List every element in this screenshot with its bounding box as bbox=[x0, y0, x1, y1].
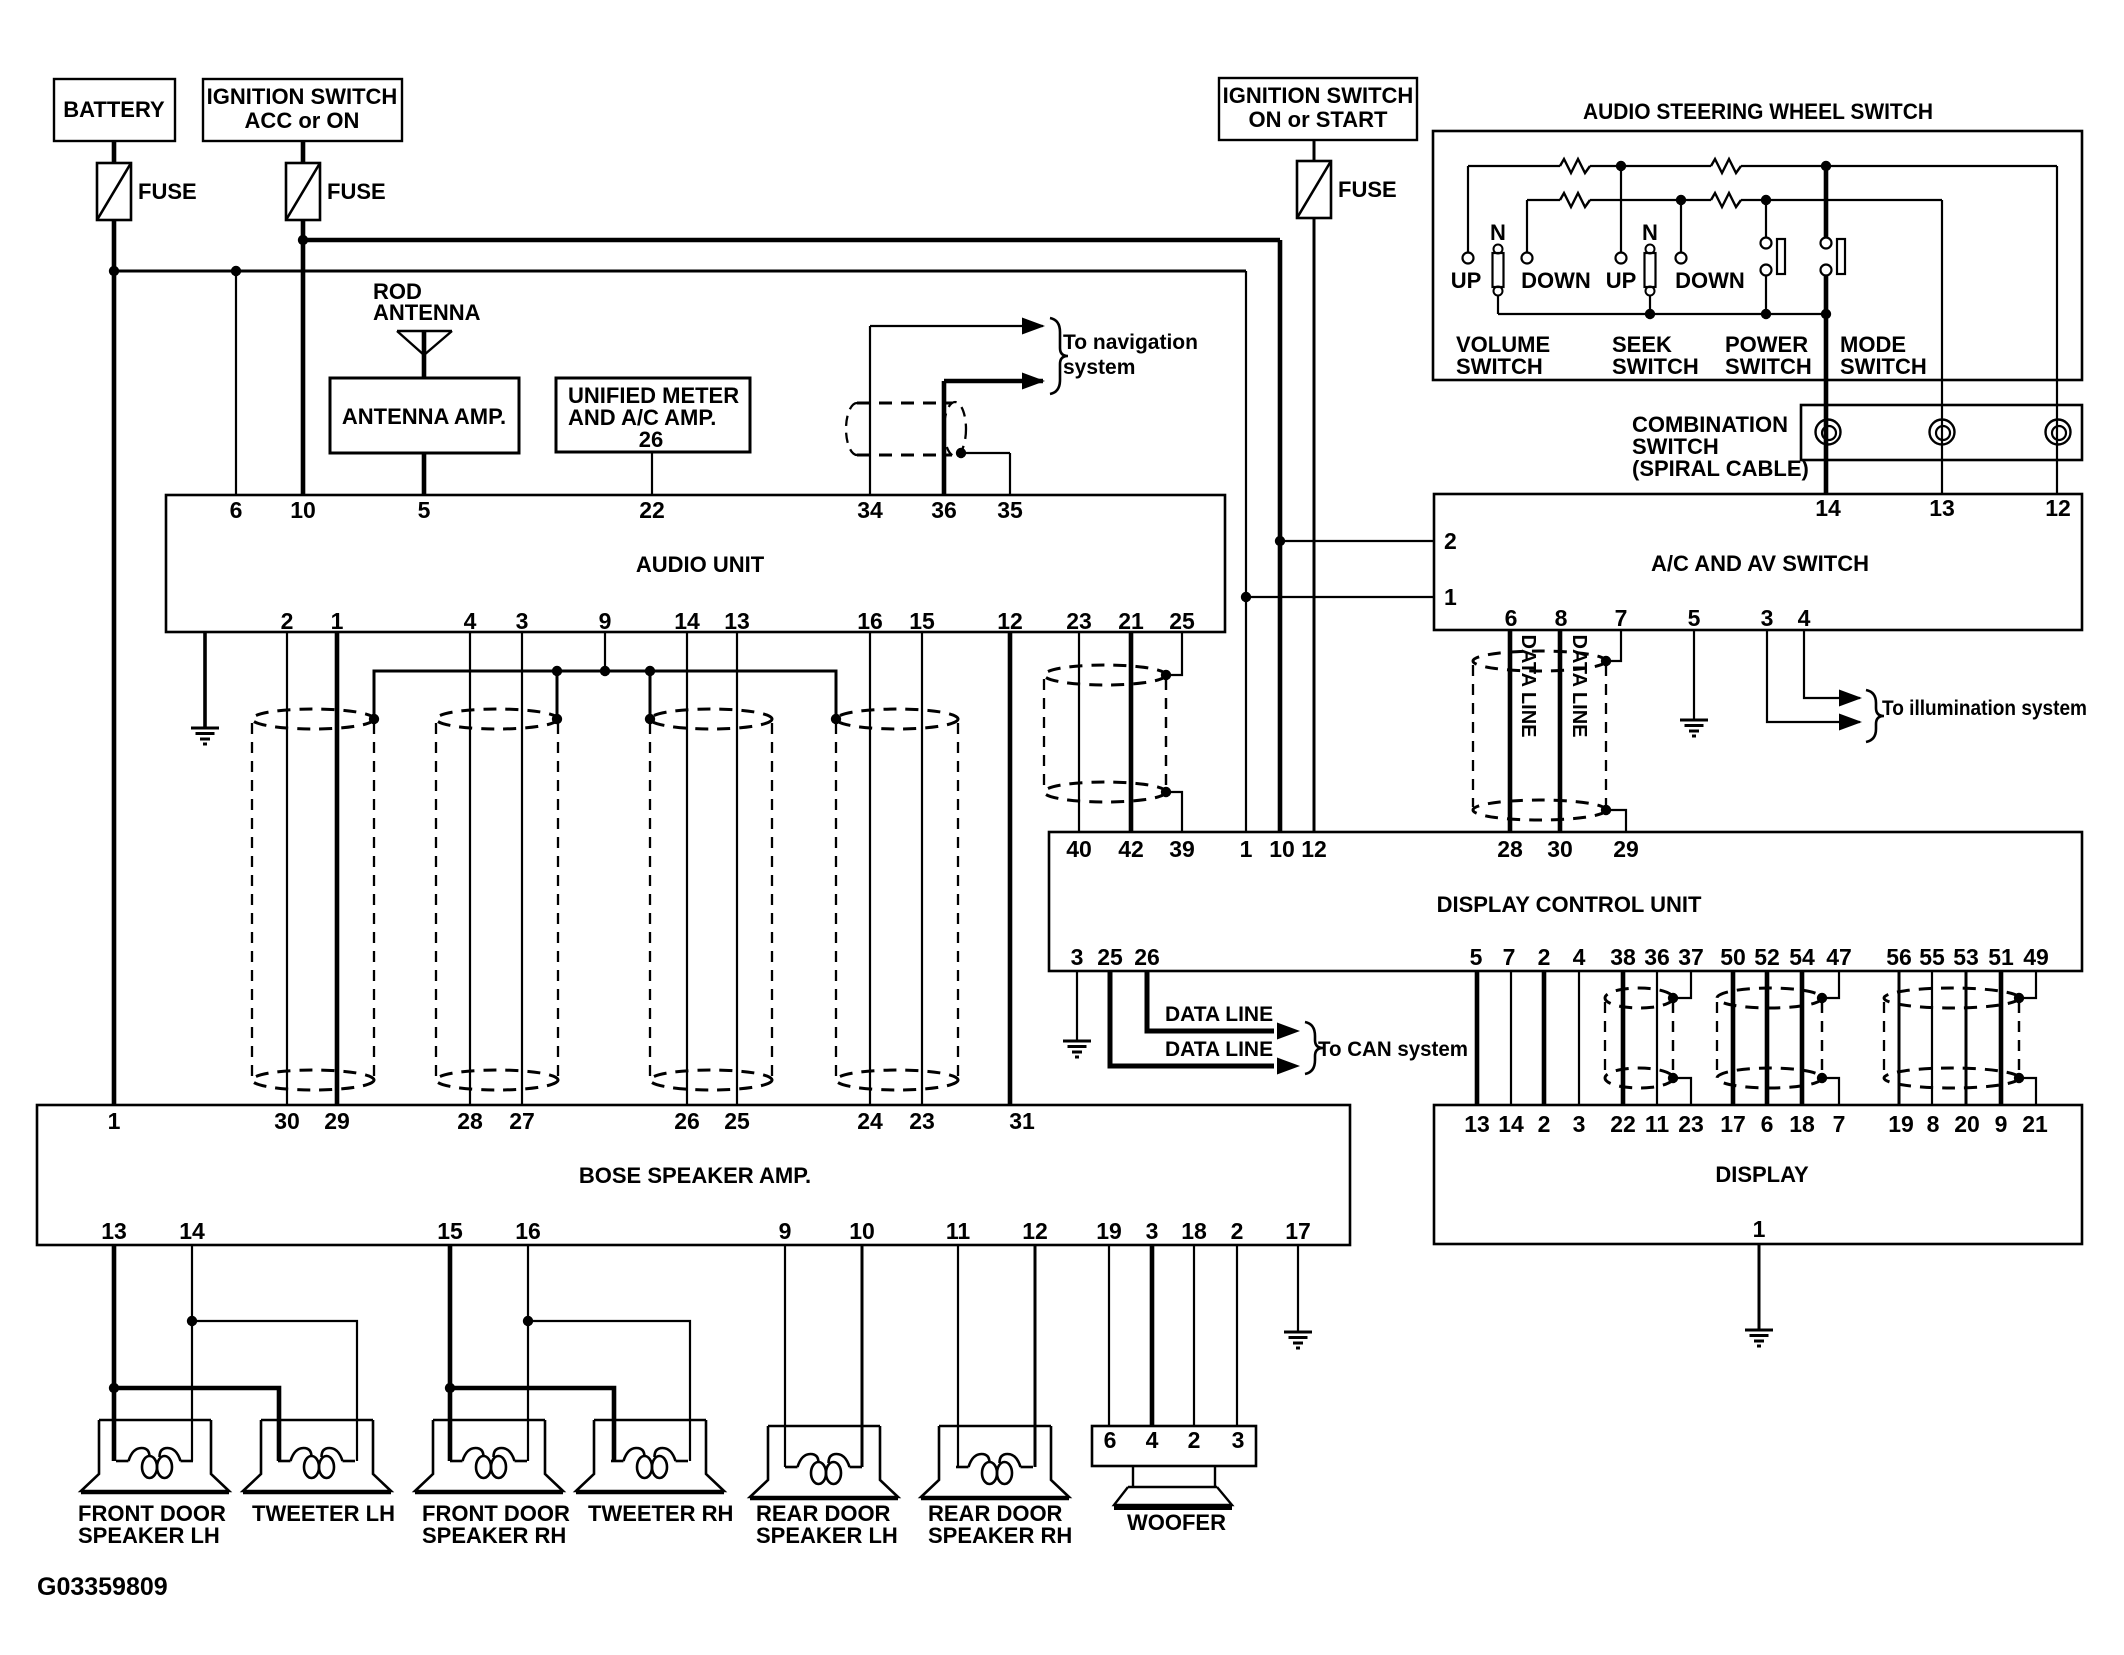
svg-text:23: 23 bbox=[1066, 608, 1092, 634]
svg-text:SPEAKER RH: SPEAKER RH bbox=[422, 1523, 566, 1548]
node shield bus bbox=[645, 666, 655, 676]
shielded cable (speaker pair 4/3) bbox=[436, 709, 558, 1090]
svg-text:DOWN: DOWN bbox=[1521, 268, 1591, 293]
wire ACAV 3 to illumination bbox=[1767, 630, 1860, 722]
svg-text:21: 21 bbox=[1118, 608, 1144, 634]
svg-text:8: 8 bbox=[1555, 605, 1568, 631]
shielded cable (speaker pair 14/13) bbox=[650, 709, 772, 1090]
svg-text:TWEETER RH: TWEETER RH bbox=[588, 1501, 733, 1526]
svg-text:system: system bbox=[1063, 356, 1135, 379]
wire antenna amp to AUDIO pin 5 bbox=[422, 453, 427, 495]
brace to CAN bbox=[1305, 1022, 1323, 1074]
svg-text:6: 6 bbox=[1761, 1111, 1774, 1137]
svg-text:35: 35 bbox=[997, 497, 1023, 523]
svg-text:39: 39 bbox=[1169, 836, 1195, 862]
wire to TWEETER LH + bbox=[114, 1388, 279, 1461]
svg-text:1: 1 bbox=[331, 608, 344, 634]
svg-text:8: 8 bbox=[1927, 1111, 1940, 1137]
AUDIO STEERING WHEEL SWITCH box bbox=[1433, 131, 2082, 380]
ignition switch ACC box bbox=[203, 79, 402, 141]
svg-text:5: 5 bbox=[1470, 944, 1483, 970]
A/C AND AV SWITCH box bbox=[1434, 494, 2082, 630]
svg-text:UP: UP bbox=[1451, 268, 1482, 293]
speaker TWEETER RH bbox=[576, 1420, 724, 1493]
svg-text:27: 27 bbox=[509, 1108, 535, 1134]
svg-text:13: 13 bbox=[724, 608, 750, 634]
wire DCU 36 to DISPLAY 11 bbox=[1656, 971, 1658, 1105]
AUDIO UNIT box bbox=[166, 495, 1225, 632]
svg-text:31: 31 bbox=[1009, 1108, 1035, 1134]
wire AUDIO 9 shield drain bbox=[604, 632, 606, 671]
svg-text:18: 18 bbox=[1181, 1218, 1207, 1244]
node branch tweeter LH - bbox=[187, 1316, 197, 1326]
svg-text:47: 47 bbox=[1826, 944, 1852, 970]
svg-text:DATA LINE: DATA LINE bbox=[1568, 635, 1590, 738]
svg-text:3: 3 bbox=[516, 608, 529, 634]
shielded cable (speaker pair 2/1) bbox=[252, 709, 374, 1090]
svg-text:28: 28 bbox=[457, 1108, 483, 1134]
spiral cable contact bbox=[1816, 420, 1841, 445]
node top rail / mode bbox=[1821, 161, 1831, 171]
node shield top bbox=[1668, 993, 1678, 1003]
power switch bbox=[1765, 200, 1767, 237]
svg-text:55: 55 bbox=[1919, 944, 1945, 970]
svg-text:2: 2 bbox=[1444, 528, 1457, 554]
resistor R1 bbox=[1560, 159, 1590, 173]
wire to AUDIO UNIT pin 6 bbox=[235, 271, 237, 495]
volume switch DOWN contact bbox=[1526, 200, 1528, 252]
svg-text:1: 1 bbox=[108, 1108, 121, 1134]
svg-text:4: 4 bbox=[1146, 1427, 1159, 1453]
svg-text:10: 10 bbox=[849, 1218, 875, 1244]
svg-text:23: 23 bbox=[909, 1108, 935, 1134]
wire battery rail horizontal bbox=[114, 270, 1246, 273]
svg-text:4: 4 bbox=[464, 608, 477, 634]
wire DCU 25 data line to CAN bbox=[1110, 971, 1274, 1066]
volume switch UP contact bbox=[1467, 166, 1469, 252]
svg-text:16: 16 bbox=[515, 1218, 541, 1244]
node branch to AUDIO pin 6 bbox=[231, 266, 241, 276]
svg-text:30: 30 bbox=[274, 1108, 300, 1134]
resistor R4 bbox=[1711, 193, 1741, 207]
svg-text:25: 25 bbox=[1097, 944, 1123, 970]
ground (display) bbox=[1745, 1330, 1773, 1346]
svg-text:40: 40 bbox=[1066, 836, 1092, 862]
svg-text:21: 21 bbox=[2022, 1111, 2048, 1137]
svg-text:FUSE: FUSE bbox=[1338, 177, 1397, 202]
svg-text:5: 5 bbox=[1688, 605, 1701, 631]
wire shield to DISPLAY 7 bbox=[1822, 1078, 1839, 1105]
svg-text:9: 9 bbox=[1995, 1111, 2008, 1137]
fuse F2 (ACC) bbox=[286, 163, 320, 220]
wire AUDIO 2 to BOSE 30 bbox=[286, 632, 288, 1105]
node top rail / seek up bbox=[1616, 161, 1626, 171]
svg-text:4: 4 bbox=[1798, 605, 1811, 631]
wire BOSE 17 to ground bbox=[1297, 1245, 1299, 1332]
wire steering top rail bbox=[1468, 165, 1560, 167]
node shield to pin 35 bbox=[956, 448, 966, 458]
svg-text:2: 2 bbox=[1231, 1218, 1244, 1244]
svg-text:AUDIO STEERING WHEEL SWITCH: AUDIO STEERING WHEEL SWITCH bbox=[1583, 99, 1933, 124]
wire ACAV 7 to shield bbox=[1606, 630, 1621, 661]
wire AUDIO 25 to shield bbox=[1166, 632, 1182, 675]
woofer connector box bbox=[1092, 1426, 1256, 1466]
wire DCU 37 to shield bbox=[1673, 971, 1691, 998]
svg-text:2: 2 bbox=[1538, 1111, 1551, 1137]
wire DCU 56 to DISPLAY 19 bbox=[1898, 971, 1901, 1105]
ground (audio unit) bbox=[191, 728, 219, 744]
svg-text:To illumination system: To illumination system bbox=[1882, 697, 2087, 720]
wire ACAV 4 to illumination bbox=[1804, 630, 1860, 698]
node bottom rail mode bbox=[1821, 309, 1831, 319]
svg-text:7: 7 bbox=[1503, 944, 1516, 970]
fuse F3 (ON/START) bbox=[1297, 161, 1331, 218]
wire DCU 2 to DISPLAY 2 bbox=[1542, 971, 1547, 1105]
wire DCU 49 to shield bbox=[2019, 971, 2036, 998]
wire AUDIO 21 to DCU 42 bbox=[1129, 632, 1134, 832]
svg-text:52: 52 bbox=[1754, 944, 1780, 970]
node shield bus bbox=[600, 666, 610, 676]
shielded cable (AUDIO 23/21) bbox=[1044, 665, 1166, 802]
wire ACC rail horizontal bbox=[303, 238, 1280, 243]
ground (BOSE amp) bbox=[1284, 1332, 1312, 1348]
wire AUDIO 3 to BOSE 27 bbox=[521, 632, 523, 1105]
svg-text:N: N bbox=[1490, 220, 1506, 245]
node shield top bbox=[1817, 993, 1827, 1003]
svg-text:1: 1 bbox=[1240, 836, 1253, 862]
battery bbox=[54, 79, 175, 141]
node shield connection bbox=[645, 714, 655, 724]
svg-text:53: 53 bbox=[1953, 944, 1979, 970]
wire DCU 50 to DISPLAY 17 bbox=[1731, 971, 1736, 1105]
mode switch bbox=[1824, 166, 1829, 237]
svg-text:DATA LINE: DATA LINE bbox=[1165, 1003, 1273, 1026]
svg-text:42: 42 bbox=[1118, 836, 1144, 862]
svg-text:11: 11 bbox=[946, 1218, 971, 1244]
node rail2 / seek down bbox=[1676, 195, 1686, 205]
svg-text:9: 9 bbox=[599, 608, 612, 634]
svg-text:19: 19 bbox=[1888, 1111, 1914, 1137]
ground (A/C AV switch) bbox=[1680, 720, 1708, 736]
resistor R3 bbox=[1560, 193, 1590, 207]
wire DISPLAY 1 to ground bbox=[1758, 1244, 1761, 1330]
wire AUDIO pin 34 up bbox=[869, 326, 871, 495]
wire BOSE 2 to woofer 3 bbox=[1236, 1245, 1238, 1426]
svg-text:DATA LINE: DATA LINE bbox=[1165, 1038, 1273, 1061]
svg-text:DOWN: DOWN bbox=[1675, 268, 1745, 293]
wire DCU 26 data line to CAN bbox=[1147, 971, 1274, 1031]
wire AUDIO 12 to BOSE 31 bbox=[1008, 632, 1013, 1105]
svg-text:FUSE: FUSE bbox=[138, 179, 197, 204]
ignition switch ON/START box bbox=[1219, 78, 1417, 140]
wire BOSE 13 to FD-LH speaker + bbox=[112, 1245, 117, 1461]
svg-text:15: 15 bbox=[437, 1218, 463, 1244]
wire to A/C AV switch pin 1 bbox=[1246, 596, 1434, 598]
svg-text:28: 28 bbox=[1497, 836, 1523, 862]
wire ACAV 5 to ground bbox=[1693, 630, 1695, 720]
wire shield drain dashed bbox=[1821, 1002, 1823, 1074]
wire shield to DISPLAY 23 bbox=[1673, 1078, 1691, 1105]
wire DCU 51 to DISPLAY 9 bbox=[1999, 971, 2004, 1105]
wire AUDIO 15 to BOSE 23 bbox=[921, 632, 923, 1105]
shielded cable (DCU 56/55/53/51) bbox=[1884, 988, 2019, 1088]
svg-text:5: 5 bbox=[418, 497, 431, 523]
svg-text:49: 49 bbox=[2023, 944, 2049, 970]
wire BOSE 9 to RD-LH speaker bbox=[784, 1245, 786, 1467]
svg-text:7: 7 bbox=[1615, 605, 1628, 631]
wire DCU 54 to DISPLAY 18 bbox=[1800, 971, 1805, 1105]
svg-text:51: 51 bbox=[1988, 944, 2014, 970]
node shield top bbox=[2014, 993, 2024, 1003]
svg-text:16: 16 bbox=[857, 608, 883, 634]
svg-text:A/C AND AV SWITCH: A/C AND AV SWITCH bbox=[1651, 551, 1869, 576]
svg-text:G03359809: G03359809 bbox=[37, 1573, 168, 1601]
node branch tweeter RH - bbox=[523, 1316, 533, 1326]
svg-text:TWEETER LH: TWEETER LH bbox=[252, 1501, 395, 1526]
shield drain bus bbox=[374, 671, 836, 719]
svg-text:IGNITION SWITCH: IGNITION SWITCH bbox=[207, 84, 398, 109]
svg-text:12: 12 bbox=[1022, 1218, 1048, 1244]
svg-text:36: 36 bbox=[1644, 944, 1670, 970]
wire BOSE 12 to RD-RH speaker bbox=[1034, 1245, 1037, 1467]
svg-text:14: 14 bbox=[1498, 1111, 1524, 1137]
svg-text:30: 30 bbox=[1547, 836, 1573, 862]
wire steering bottom rail bbox=[1498, 313, 1826, 315]
svg-text:BOSE SPEAKER AMP.: BOSE SPEAKER AMP. bbox=[579, 1163, 811, 1188]
wire BOSE 18 to woofer 2 bbox=[1193, 1245, 1195, 1426]
node shield top bbox=[1601, 656, 1611, 666]
svg-text:9: 9 bbox=[779, 1218, 792, 1244]
svg-text:6: 6 bbox=[230, 497, 243, 523]
svg-text:29: 29 bbox=[324, 1108, 350, 1134]
brace to navigation bbox=[1050, 318, 1068, 394]
svg-text:26: 26 bbox=[639, 427, 663, 452]
svg-text:13: 13 bbox=[101, 1218, 127, 1244]
wire AUDIO 16 to BOSE 24 bbox=[869, 632, 871, 1105]
wire AUDIO 4 to BOSE 28 bbox=[469, 632, 471, 1105]
wire to TWEETER RH + bbox=[450, 1388, 614, 1461]
node shield bottom bbox=[1817, 1073, 1827, 1083]
svg-text:ANTENNA: ANTENNA bbox=[373, 300, 481, 325]
svg-text:BATTERY: BATTERY bbox=[63, 97, 165, 122]
wire BOSE 11 to RD-RH speaker bbox=[957, 1245, 959, 1467]
svg-text:54: 54 bbox=[1789, 944, 1815, 970]
svg-text:36: 36 bbox=[931, 497, 957, 523]
svg-text:IGNITION SWITCH: IGNITION SWITCH bbox=[1223, 83, 1414, 108]
svg-text:12: 12 bbox=[1301, 836, 1327, 862]
wire ACAV 6 to DCU 28 (data line) bbox=[1508, 630, 1513, 832]
svg-text:25: 25 bbox=[724, 1108, 750, 1134]
svg-text:14: 14 bbox=[1815, 495, 1841, 521]
svg-text:25: 25 bbox=[1169, 608, 1195, 634]
svg-text:23: 23 bbox=[1678, 1111, 1704, 1137]
woofer speaker bbox=[1114, 1466, 1232, 1508]
svg-text:SPEAKER LH: SPEAKER LH bbox=[78, 1523, 220, 1548]
wire DCU 47 to shield bbox=[1822, 971, 1839, 998]
wire BOSE 14 to FD-LH speaker - bbox=[191, 1245, 193, 1461]
svg-text:DATA LINE: DATA LINE bbox=[1517, 635, 1539, 738]
antenna amp bbox=[330, 378, 519, 453]
svg-text:11: 11 bbox=[1645, 1111, 1670, 1137]
node branch tweeter RH bbox=[445, 1383, 455, 1393]
svg-text:29: 29 bbox=[1613, 836, 1639, 862]
svg-text:N: N bbox=[1642, 220, 1658, 245]
svg-text:4: 4 bbox=[1573, 944, 1586, 970]
node bottom rail seek bbox=[1645, 309, 1655, 319]
speaker REAR DOOR RH bbox=[921, 1426, 1069, 1499]
svg-text:15: 15 bbox=[909, 608, 935, 634]
wire shield to DCU 39 bbox=[1166, 792, 1182, 832]
svg-text:SWITCH: SWITCH bbox=[1612, 354, 1699, 379]
svg-text:50: 50 bbox=[1720, 944, 1746, 970]
svg-text:6: 6 bbox=[1505, 605, 1518, 631]
wire AUDIO 23 to DCU 40 bbox=[1078, 632, 1080, 832]
shield (horizontal cylinder) on antenna leads bbox=[846, 402, 966, 456]
node shield bottom bbox=[1601, 805, 1611, 815]
wire to navigation 1 bbox=[870, 325, 1043, 327]
svg-text:DISPLAY: DISPLAY bbox=[1715, 1162, 1809, 1187]
unified meter and A/C amp bbox=[556, 378, 750, 452]
svg-text:3: 3 bbox=[1761, 605, 1774, 631]
svg-text:FUSE: FUSE bbox=[327, 179, 386, 204]
svg-text:ON or START: ON or START bbox=[1249, 107, 1388, 132]
wire ignition ON to fuse bbox=[1313, 140, 1316, 161]
svg-text:18: 18 bbox=[1789, 1111, 1815, 1137]
wire DCU 38 to DISPLAY 22 bbox=[1621, 971, 1626, 1105]
svg-text:To CAN system: To CAN system bbox=[1318, 1038, 1468, 1061]
svg-text:17: 17 bbox=[1720, 1111, 1746, 1137]
wire steering second rail bbox=[1527, 199, 1560, 201]
svg-text:1: 1 bbox=[1444, 584, 1457, 610]
speaker FRONT DOOR RH bbox=[415, 1420, 563, 1493]
svg-text:SPEAKER LH: SPEAKER LH bbox=[756, 1523, 898, 1548]
svg-text:13: 13 bbox=[1929, 495, 1955, 521]
spiral cable contact bbox=[2046, 420, 2071, 445]
svg-text:26: 26 bbox=[1134, 944, 1160, 970]
wire shield drain dashed bbox=[2018, 1002, 2020, 1074]
svg-text:26: 26 bbox=[674, 1108, 700, 1134]
resistor R2 bbox=[1711, 159, 1741, 173]
ground (display control unit) bbox=[1063, 1041, 1091, 1057]
shielded cable (speaker pair 16/15) bbox=[836, 709, 958, 1090]
wire seek line to combination 13 bbox=[1941, 200, 1943, 494]
svg-text:ACC or ON: ACC or ON bbox=[245, 108, 360, 133]
node shield bottom bbox=[1668, 1073, 1678, 1083]
wire battery to fuse bbox=[112, 141, 117, 163]
node shield bottom bbox=[2014, 1073, 2024, 1083]
seek switch UP contact bbox=[1620, 166, 1622, 252]
svg-text:17: 17 bbox=[1285, 1218, 1311, 1244]
wire volume/mode common to combination 14 bbox=[1824, 314, 1829, 494]
svg-text:10: 10 bbox=[290, 497, 316, 523]
svg-text:14: 14 bbox=[674, 608, 700, 634]
svg-text:22: 22 bbox=[639, 497, 665, 523]
wire mode line to combination 12 bbox=[2056, 166, 2058, 494]
wire shield to DCU 29 bbox=[1606, 810, 1626, 832]
wire DCU 3 to ground bbox=[1076, 971, 1078, 1041]
svg-text:UP: UP bbox=[1606, 268, 1637, 293]
spiral cable contact bbox=[1930, 420, 1955, 445]
wire DCU 52 to DISPLAY 6 bbox=[1765, 971, 1770, 1105]
svg-text:WOOFER: WOOFER bbox=[1127, 1510, 1226, 1535]
node rail2 / power bbox=[1761, 195, 1771, 205]
svg-text:6: 6 bbox=[1104, 1427, 1117, 1453]
combination switch (spiral cable) box bbox=[1801, 405, 2082, 460]
svg-text:SPEAKER RH: SPEAKER RH bbox=[928, 1523, 1072, 1548]
svg-text:2: 2 bbox=[281, 608, 294, 634]
wire AUDIO pin 36 up bbox=[942, 381, 947, 495]
wire DCU 5 to DISPLAY 13 bbox=[1475, 971, 1480, 1105]
wire AUDIO 13 to BOSE 25 bbox=[736, 632, 738, 1105]
wire battery feed down to BOSE pin 1 bbox=[112, 220, 117, 1105]
wire shield drain dashed bbox=[1672, 1002, 1674, 1074]
wire to navigation 2 bbox=[944, 379, 1043, 384]
wire unified meter to AUDIO pin 22 bbox=[651, 452, 653, 495]
shielded cable (DCU 38/36) bbox=[1605, 988, 1673, 1088]
fuse F1 (battery) bbox=[97, 163, 131, 220]
node shield bus bbox=[552, 666, 562, 676]
svg-text:SWITCH: SWITCH bbox=[1725, 354, 1812, 379]
DISPLAY CONTROL UNIT box bbox=[1049, 832, 2082, 971]
svg-text:10: 10 bbox=[1269, 836, 1295, 862]
wire BOSE 15 to FD-RH speaker + bbox=[448, 1245, 453, 1461]
speaker FRONT DOOR LH bbox=[81, 1420, 229, 1493]
svg-text:56: 56 bbox=[1886, 944, 1912, 970]
shielded cable (data lines) bbox=[1473, 651, 1606, 820]
wire DCU 55 to DISPLAY 8 bbox=[1931, 971, 1933, 1105]
node branch to A/C-AV pin 1 bbox=[1241, 592, 1251, 602]
svg-text:12: 12 bbox=[997, 608, 1023, 634]
node shield top bbox=[1161, 670, 1171, 680]
svg-text:14: 14 bbox=[179, 1218, 205, 1244]
wire battery rail down right bbox=[1245, 271, 1247, 597]
wire shield drain (dashed) bbox=[1165, 679, 1167, 788]
wire ignition ACC to fuse bbox=[301, 141, 306, 163]
wire ACC down to DCU pin 10 bbox=[1278, 240, 1283, 832]
svg-text:24: 24 bbox=[857, 1108, 883, 1134]
wire DCU 7 to DISPLAY 14 bbox=[1510, 971, 1512, 1105]
seek switch DOWN contact bbox=[1680, 200, 1682, 252]
svg-text:19: 19 bbox=[1096, 1218, 1122, 1244]
svg-text:7: 7 bbox=[1833, 1111, 1846, 1137]
node branch tweeter LH bbox=[109, 1383, 119, 1393]
svg-text:1: 1 bbox=[1753, 1216, 1766, 1242]
svg-text:22: 22 bbox=[1610, 1111, 1636, 1137]
wire to A/C AV switch pin 2 bbox=[1280, 540, 1434, 542]
node ACC rail junction bbox=[298, 235, 308, 245]
svg-text:13: 13 bbox=[1464, 1111, 1490, 1137]
wire BOSE 3 to woofer 4 bbox=[1150, 1245, 1155, 1426]
svg-text:2: 2 bbox=[1188, 1427, 1201, 1453]
svg-text:AUDIO UNIT: AUDIO UNIT bbox=[636, 552, 765, 577]
wire ON/START down to DCU pin 12 bbox=[1313, 218, 1316, 832]
svg-text:3: 3 bbox=[1146, 1218, 1159, 1244]
svg-text:20: 20 bbox=[1954, 1111, 1980, 1137]
node shield connection bbox=[552, 714, 562, 724]
DISPLAY box bbox=[1434, 1105, 2082, 1244]
wire shield to AUDIO pin 35 bbox=[961, 452, 1010, 454]
node bottom rail power bbox=[1761, 309, 1771, 319]
svg-text:3: 3 bbox=[1232, 1427, 1245, 1453]
wire to TWEETER RH - bbox=[528, 1321, 690, 1461]
wire AUDIO 1 to BOSE 29 bbox=[335, 632, 340, 1105]
wire BOSE 19 to woofer 6 bbox=[1108, 1245, 1110, 1426]
BOSE SPEAKER AMP box bbox=[37, 1105, 1350, 1245]
brace to illumination bbox=[1866, 690, 1884, 742]
wire ACC down to AUDIO pin 10 bbox=[301, 220, 306, 495]
svg-text:34: 34 bbox=[857, 497, 883, 523]
svg-text:DISPLAY CONTROL UNIT: DISPLAY CONTROL UNIT bbox=[1437, 892, 1702, 917]
